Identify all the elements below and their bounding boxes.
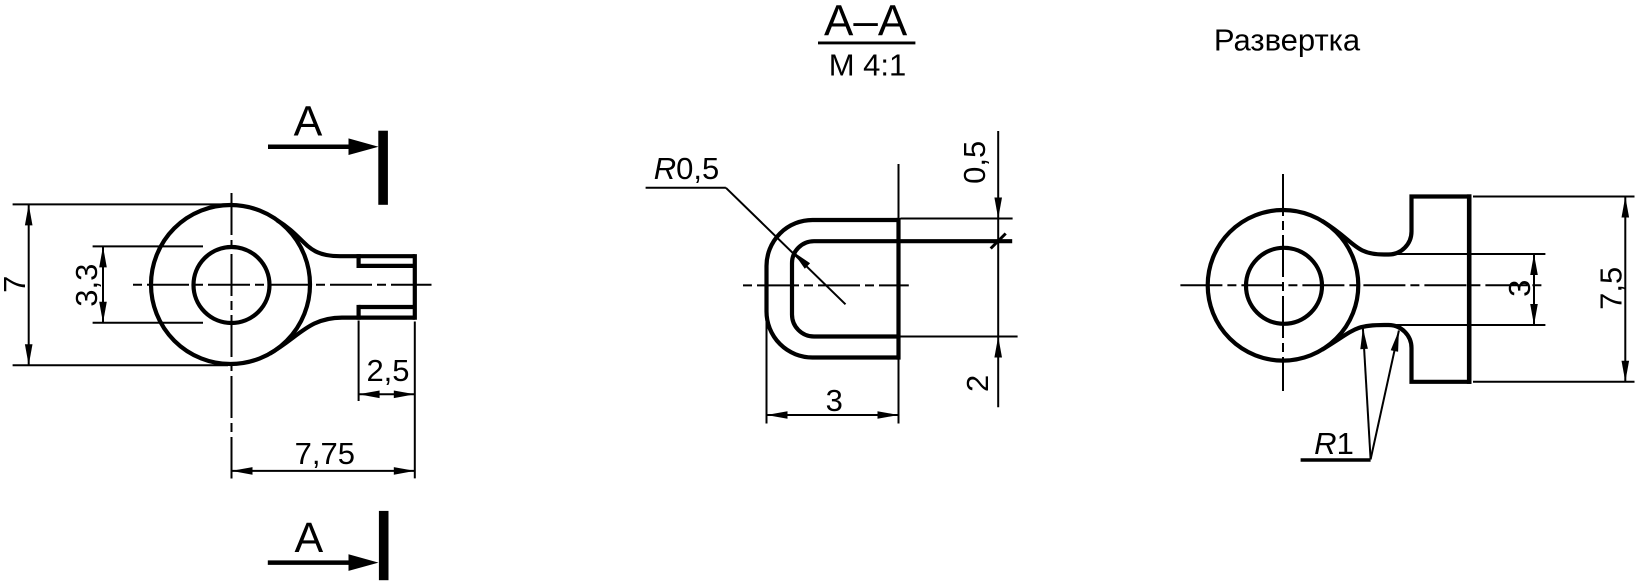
section: inner top edge thick extension: [899, 239, 1013, 243]
dimension 7,5: bottom extension line: [1473, 381, 1635, 383]
dimension 3: text: [826, 383, 843, 418]
section arrow bottom: arrow shaft: [268, 560, 362, 565]
dimension 7,75: right arrow: [394, 467, 415, 475]
dimension 7: top extension line: [13, 203, 228, 205]
dimension 3: left arrow: [767, 411, 788, 419]
dimension 7: dimension line: [28, 204, 30, 365]
svg-text:3: 3: [1502, 280, 1537, 297]
section title: A-A: [824, 0, 908, 46]
development: top profile (neck and tab): [1322, 197, 1471, 255]
dimension 7,5: bottom arrow: [1622, 361, 1630, 382]
section arrow bottom: letter A: [295, 514, 324, 562]
dimension 7,75: text: [295, 436, 355, 471]
leader R1: underline: [1301, 458, 1371, 461]
dimension 0,5: extension line at outer top: [901, 218, 1013, 220]
svg-text:3: 3: [826, 383, 843, 418]
dimension 2,5: left arrow: [359, 391, 380, 399]
left view: slot inner bottom edge: [359, 305, 415, 309]
svg-text:R1: R1: [1314, 426, 1354, 461]
dimension 7: bottom extension line: [13, 364, 228, 366]
dimension 7,5: top extension line: [1473, 196, 1635, 198]
dimension 7,75: left arrow: [232, 467, 253, 475]
dimension 0,5: text: [957, 141, 992, 184]
development: tab right end edge: [1467, 194, 1472, 384]
dimension 3 dev: top extension line: [1395, 253, 1545, 255]
dimension 2,5: right extension line: [414, 322, 416, 479]
svg-text:Развертка: Развертка: [1214, 22, 1361, 57]
svg-text:A: A: [294, 98, 323, 146]
dimension 3: dimension line: [767, 414, 899, 416]
dimensions 0,5 and 2: vertical dimension line: [997, 131, 999, 407]
development: bottom profile (neck and tab): [1322, 325, 1471, 382]
leader R1: arrowhead on circle fillet: [1360, 328, 1368, 349]
development: outer circle (head): [1208, 210, 1359, 361]
svg-text:7,75: 7,75: [295, 436, 355, 471]
svg-text:R0,5: R0,5: [654, 151, 720, 186]
section title: scale M 4:1: [829, 48, 907, 83]
dimension 7: top arrow: [25, 204, 33, 225]
leader R0,5: leader line: [726, 188, 846, 304]
dimension 3,3: bottom arrow: [99, 302, 107, 323]
leader R0,5: underline: [646, 187, 726, 189]
dimension 3 dev: dimension line: [1533, 254, 1535, 325]
svg-text:2,5: 2,5: [366, 353, 409, 388]
svg-text:7: 7: [0, 276, 32, 293]
dimension 0,5: down arrowhead: [994, 198, 1002, 219]
development: hole circle: [1246, 248, 1322, 324]
section arrow top: arrow shaft: [268, 144, 362, 149]
svg-text:3,3: 3,3: [69, 264, 104, 307]
dimension 3,3: text: [69, 264, 104, 307]
dimension 3: left extension line: [766, 322, 768, 424]
left view: tail top edge with ogee transition: [277, 220, 415, 256]
leader R1: text: [1314, 426, 1354, 461]
svg-text:A: A: [295, 514, 324, 562]
section arrow top: arrowhead: [349, 138, 379, 155]
left view: tail bottom edge with ogee transition: [270, 318, 415, 354]
section: right end thin extension line: [898, 164, 900, 424]
left view: slot end bottom step: [357, 305, 361, 320]
dimension 3 dev: top arrow: [1530, 254, 1538, 275]
dimension 2: extension line at inner bottom: [901, 336, 1018, 338]
section: horizontal centerline: [743, 284, 909, 286]
section arrow top: thick bar: [378, 131, 388, 205]
dimension 3: right arrow: [878, 411, 899, 419]
left view: slot inner top edge: [359, 264, 415, 268]
dimension 3 dev: bottom extension line: [1395, 324, 1545, 326]
view title: Развертка: [1214, 22, 1361, 57]
section arrow bottom: thick bar: [379, 511, 389, 580]
dimension 2,5: left extension line: [358, 321, 360, 402]
dimension 7: bottom arrow: [25, 344, 33, 365]
development: horizontal centerline: [1180, 284, 1545, 286]
leader R1: arrowhead on tab fillet: [1391, 331, 1399, 352]
svg-text:M 4:1: M 4:1: [829, 48, 907, 83]
leader R1: leader line to circle fillet: [1363, 328, 1371, 459]
dimension 3 dev: text: [1502, 280, 1537, 297]
dimension 2: up arrowhead: [994, 337, 1002, 358]
dimension 7,5: text: [1594, 267, 1629, 310]
left view: horizontal centerline: [133, 284, 432, 286]
left view: hole circle: [194, 247, 270, 323]
dimension 7,5: dimension line: [1624, 197, 1626, 382]
svg-text:2: 2: [960, 375, 995, 392]
dimension 7,5: top arrow: [1622, 197, 1630, 218]
left view: tail end edge: [413, 254, 417, 320]
dimension 3,3: dimension line: [102, 246, 104, 322]
dimension 0,5 / 2: oblique slash at inner top: [991, 234, 1006, 249]
section arrow top: letter A: [294, 98, 323, 146]
section title: underline: [818, 41, 915, 44]
dimension 7,75: dimension line: [232, 470, 415, 472]
left view: slot end top step: [357, 254, 361, 268]
section: right end face thick line: [896, 218, 900, 360]
dimension 2: text: [960, 375, 995, 392]
svg-text:A–A: A–A: [824, 0, 908, 46]
section: inner contour (U channel): [792, 241, 899, 336]
svg-text:0,5: 0,5: [957, 141, 992, 184]
development: vertical centerline: [1282, 174, 1284, 391]
dimension 3,3: top arrow: [99, 246, 107, 267]
dimension 3 dev: bottom arrow: [1530, 304, 1538, 325]
leader R1: leader line to tab fillet: [1371, 331, 1399, 460]
dimension 2,5: dimension line: [359, 393, 415, 395]
dimension 2,5: right arrow: [394, 391, 415, 399]
section: outer contour (U channel): [767, 220, 899, 358]
left view: outer circle (head): [151, 205, 310, 364]
dimension 3,3: bottom extension line: [93, 322, 203, 324]
left view: vertical centerline: [231, 193, 233, 479]
section arrow bottom: arrowhead: [349, 554, 379, 571]
dimension 2,5: text: [366, 353, 409, 388]
svg-text:7,5: 7,5: [1594, 267, 1629, 310]
leader R0,5: arrowhead: [793, 251, 811, 268]
leader R0,5: text: [654, 151, 720, 186]
dimension 7: text: [0, 276, 32, 293]
dimension 3,3: top extension line: [93, 245, 203, 247]
